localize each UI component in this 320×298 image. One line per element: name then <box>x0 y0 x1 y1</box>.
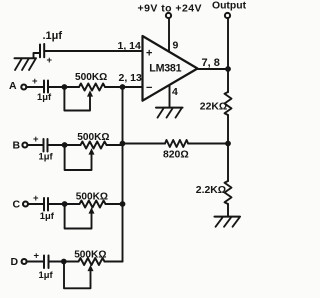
ground G2 <box>215 217 241 227</box>
svg-text:4: 4 <box>172 86 178 98</box>
node B1 <box>62 142 68 148</box>
potentiometer R7 500KΩ (channel D) <box>64 258 123 265</box>
wire op-amp output (pins 7,8) to node J1 <box>198 68 228 70</box>
potentiometer R5 500KΩ (channel B) <box>65 142 123 149</box>
svg-text:+: + <box>34 251 40 262</box>
svg-text:.1μf: .1μf <box>43 30 63 42</box>
wire summing bus (inverting input) <box>122 87 124 262</box>
resistor R1 22KΩ <box>225 69 232 144</box>
node D1 <box>61 259 67 265</box>
wire node J1 to output terminal <box>227 19 229 69</box>
wire C1 to node A1 <box>48 86 64 88</box>
terminal D <box>22 259 27 264</box>
svg-text:Output: Output <box>212 1 247 12</box>
node bus-C <box>120 201 126 207</box>
ground G1 <box>156 108 183 118</box>
wiper arrow R6 with feedback loop wire <box>65 204 95 229</box>
wiper arrow R7 with feedback loop wire <box>64 262 94 289</box>
wire C2 to node B1 <box>48 144 65 146</box>
resistor R2 820Ω (feedback) <box>123 140 229 147</box>
svg-text:A: A <box>9 80 17 92</box>
svg-text:9: 9 <box>173 39 179 51</box>
svg-text:+: + <box>33 193 39 204</box>
svg-text:+: + <box>47 55 53 66</box>
svg-text:22KΩ: 22KΩ <box>200 101 227 112</box>
terminal Output <box>225 13 230 18</box>
svg-text:1μf: 1μf <box>37 91 52 102</box>
svg-text:C: C <box>13 199 21 211</box>
svg-text:500KΩ: 500KΩ <box>77 132 109 143</box>
svg-text:+9V to +24V: +9V to +24V <box>138 2 202 14</box>
svg-text:500KΩ: 500KΩ <box>76 191 108 202</box>
node bus-B <box>120 141 126 147</box>
terminal supply V+ <box>166 13 171 18</box>
wiper arrow R5 with feedback loop wire <box>65 145 95 170</box>
node A1 <box>62 84 68 90</box>
svg-text:D: D <box>11 256 19 268</box>
wire C5 to op-amp noninverting input (pins 1,14) <box>44 50 142 52</box>
svg-text:+: + <box>146 48 152 60</box>
terminal C <box>23 202 28 207</box>
svg-text:+: + <box>33 134 39 145</box>
svg-text:1, 14: 1, 14 <box>118 40 142 52</box>
terminal A <box>21 85 26 90</box>
wire C4 to node D1 <box>49 261 64 263</box>
potentiometer R6 500KΩ (channel C) <box>65 201 123 208</box>
wire B terminal to C2 <box>28 144 44 146</box>
svg-text:820Ω: 820Ω <box>163 150 189 161</box>
wire C terminal to C3 <box>28 203 44 205</box>
svg-text:1μf: 1μf <box>40 210 55 221</box>
svg-text:2.2KΩ: 2.2KΩ <box>196 185 226 196</box>
wire A terminal to C1 <box>26 86 44 88</box>
svg-text:−: − <box>146 82 152 94</box>
svg-text:2, 13: 2, 13 <box>119 72 143 84</box>
svg-text:7, 8: 7, 8 <box>202 57 220 69</box>
svg-text:500KΩ: 500KΩ <box>74 250 106 261</box>
node J2 (feedback divider junction) <box>225 141 231 147</box>
wire pin 9 to supply <box>168 19 170 52</box>
terminal B <box>22 143 27 148</box>
op-amp U1 LM381 <box>143 36 198 101</box>
ground G0 <box>15 58 37 70</box>
wire C3 to node C1n <box>48 203 65 205</box>
wire D terminal to C4 <box>27 261 44 263</box>
wire C5 left plate to ground <box>34 53 41 58</box>
svg-text:500KΩ: 500KΩ <box>75 72 107 83</box>
svg-text:1μf: 1μf <box>39 269 54 280</box>
capacitor C3 1uf <box>44 198 48 211</box>
svg-text:1μf: 1μf <box>39 151 54 162</box>
capacitor C4 1uf <box>44 256 49 269</box>
svg-text:+: + <box>32 76 38 87</box>
wire pin 4 to ground <box>169 85 171 107</box>
capacitor C2 1uf <box>44 139 48 152</box>
resistor R3 2.2KΩ <box>225 144 232 217</box>
capacitor C5 .1uf (noninverting input bypass) <box>40 44 44 57</box>
capacitor C1 1uf <box>44 81 48 93</box>
potentiometer R4 500KΩ (channel A) <box>64 84 142 91</box>
node bus-A <box>120 84 126 90</box>
node J1 (output junction) <box>225 66 231 72</box>
svg-text:B: B <box>13 139 21 151</box>
svg-text:LM381: LM381 <box>149 62 181 74</box>
node C1n <box>62 201 68 207</box>
wiper arrow R4 with feedback loop wire <box>64 87 93 111</box>
